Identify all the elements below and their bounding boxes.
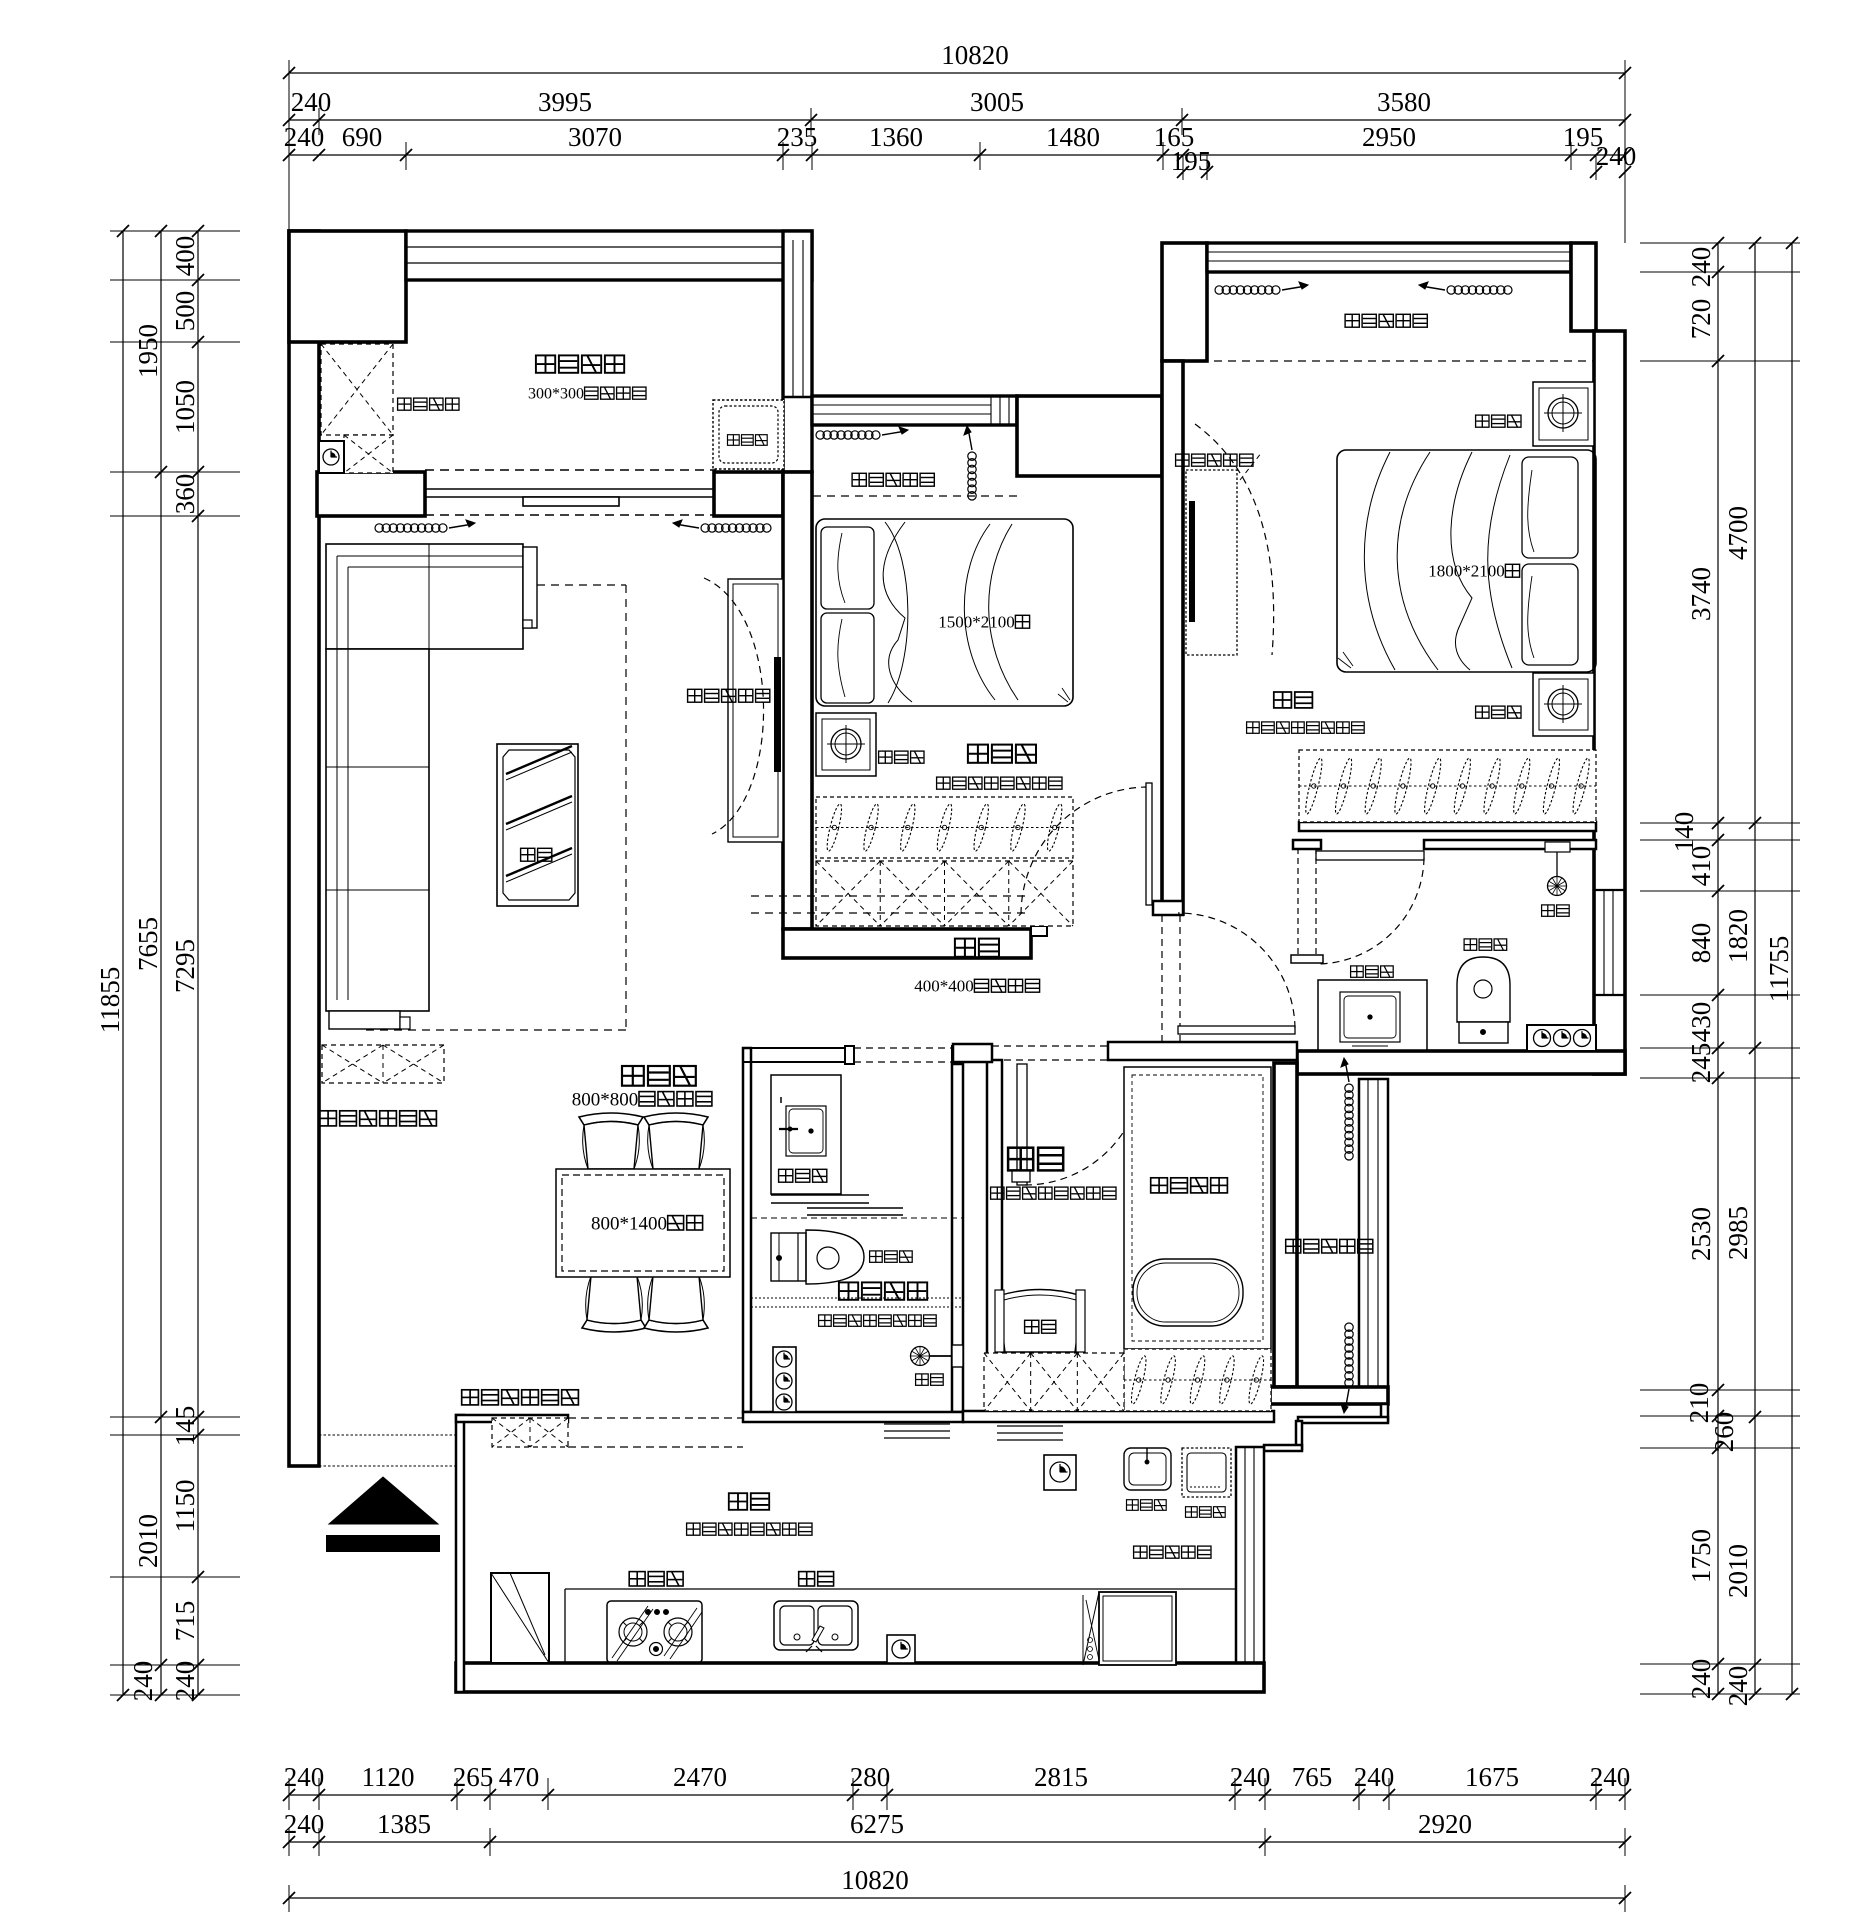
svg-text:410: 410 xyxy=(1686,846,1716,887)
svg-text:265: 265 xyxy=(453,1762,494,1792)
svg-text:240: 240 xyxy=(1596,141,1637,171)
svg-text:1675: 1675 xyxy=(1465,1762,1519,1792)
svg-text:10820: 10820 xyxy=(941,40,1009,70)
svg-text:3995: 3995 xyxy=(538,87,592,117)
svg-text:7655: 7655 xyxy=(133,917,163,971)
svg-text:430: 430 xyxy=(1686,1002,1716,1043)
svg-text:1150: 1150 xyxy=(170,1480,200,1533)
svg-text:235: 235 xyxy=(777,122,818,152)
svg-text:1385: 1385 xyxy=(377,1809,431,1839)
svg-text:470: 470 xyxy=(499,1762,540,1792)
svg-text:2950: 2950 xyxy=(1362,122,1416,152)
svg-text:2920: 2920 xyxy=(1418,1809,1472,1839)
svg-text:1950: 1950 xyxy=(133,324,163,378)
svg-text:1120: 1120 xyxy=(362,1762,415,1792)
svg-text:240: 240 xyxy=(284,1809,325,1839)
svg-text:1360: 1360 xyxy=(869,122,923,152)
svg-text:11755: 11755 xyxy=(1764,936,1794,1003)
svg-text:1480: 1480 xyxy=(1046,122,1100,152)
svg-text:3740: 3740 xyxy=(1686,567,1716,621)
svg-text:765: 765 xyxy=(1292,1762,1333,1792)
svg-text:800*800: 800*800 xyxy=(572,1090,639,1111)
svg-text:240: 240 xyxy=(170,1661,200,1702)
svg-text:1800*2100: 1800*2100 xyxy=(1428,562,1505,581)
svg-text:2010: 2010 xyxy=(1723,1544,1753,1598)
svg-text:1820: 1820 xyxy=(1723,909,1753,963)
svg-text:2530: 2530 xyxy=(1686,1207,1716,1261)
svg-text:195: 195 xyxy=(1171,146,1212,176)
svg-text:11855: 11855 xyxy=(95,967,125,1034)
svg-text:6275: 6275 xyxy=(850,1809,904,1839)
svg-text:690: 690 xyxy=(342,122,383,152)
svg-text:800*1400: 800*1400 xyxy=(591,1214,667,1235)
svg-text:2985: 2985 xyxy=(1723,1206,1753,1260)
svg-text:3070: 3070 xyxy=(568,122,622,152)
svg-text:2470: 2470 xyxy=(673,1762,727,1792)
svg-text:240: 240 xyxy=(284,1762,325,1792)
svg-text:3580: 3580 xyxy=(1377,87,1431,117)
svg-text:1050: 1050 xyxy=(170,380,200,434)
svg-text:2815: 2815 xyxy=(1034,1762,1088,1792)
svg-text:400: 400 xyxy=(170,236,200,277)
svg-text:10820: 10820 xyxy=(841,1865,909,1895)
svg-text:240: 240 xyxy=(1354,1762,1395,1792)
svg-text:720: 720 xyxy=(1686,299,1716,340)
svg-text:245: 245 xyxy=(1686,1043,1716,1084)
svg-text:145: 145 xyxy=(170,1406,200,1447)
svg-text:1750: 1750 xyxy=(1686,1529,1716,1583)
svg-text:240: 240 xyxy=(1723,1666,1753,1707)
svg-text:240: 240 xyxy=(128,1661,158,1702)
svg-text:240: 240 xyxy=(1230,1762,1271,1792)
svg-text:840: 840 xyxy=(1686,923,1716,964)
svg-text:240: 240 xyxy=(1686,247,1716,288)
svg-text:240: 240 xyxy=(284,122,325,152)
svg-text:360: 360 xyxy=(170,474,200,515)
svg-text:2010: 2010 xyxy=(133,1514,163,1568)
svg-text:300*300: 300*300 xyxy=(528,386,584,403)
svg-text:240: 240 xyxy=(1590,1762,1631,1792)
svg-text:7295: 7295 xyxy=(170,939,200,993)
svg-text:4700: 4700 xyxy=(1723,506,1753,560)
svg-text:280: 280 xyxy=(850,1762,891,1792)
svg-text:240: 240 xyxy=(1686,1659,1716,1700)
svg-text:500: 500 xyxy=(170,291,200,332)
svg-text:715: 715 xyxy=(170,1601,200,1642)
svg-text:3005: 3005 xyxy=(970,87,1024,117)
svg-text:240: 240 xyxy=(291,87,332,117)
svg-text:260: 260 xyxy=(1709,1412,1739,1453)
svg-text:400*400: 400*400 xyxy=(914,977,974,996)
svg-text:1500*2100: 1500*2100 xyxy=(938,613,1015,632)
